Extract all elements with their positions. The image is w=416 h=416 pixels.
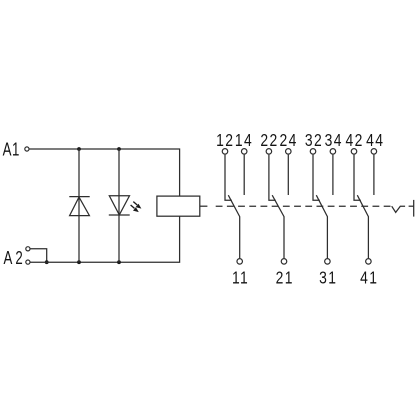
label 32 — [305, 131, 323, 150]
svg-text:32: 32 — [305, 131, 323, 150]
svg-text:41: 41 — [360, 269, 378, 288]
diode V1 suppression — [69, 197, 89, 216]
terminal 31 — [325, 259, 331, 265]
contact 1 NC wire 12 — [225, 155, 232, 201]
contact 3 NO wire 34 — [332, 155, 334, 195]
label 41 — [360, 269, 378, 288]
svg-text:24: 24 — [279, 131, 297, 150]
svg-text:14: 14 — [235, 131, 253, 150]
relay coil K1 — [157, 196, 200, 216]
svg-text:21: 21 — [276, 269, 294, 288]
wire LED branch — [118, 149, 120, 262]
svg-text:11: 11 — [232, 269, 249, 288]
svg-text:31: 31 — [319, 269, 337, 288]
terminal 32 — [310, 149, 316, 155]
contact 2 NC wire 22 — [269, 155, 276, 201]
LED light arrow 1 — [133, 202, 141, 209]
terminal 14 — [241, 149, 247, 155]
wire coil lead right — [200, 205, 208, 207]
terminal 41 — [366, 259, 372, 265]
contact 4 NO wire 44 — [373, 155, 375, 195]
wire bottom rail A2 to coil — [30, 216, 179, 262]
mechanical link dashed line — [216, 205, 391, 207]
label A2 — [4, 248, 26, 269]
terminal A1 — [25, 147, 29, 151]
terminal 11 — [237, 259, 243, 265]
terminal 12 — [222, 149, 228, 155]
label 14 — [235, 131, 253, 150]
LED light arrow 2 — [131, 205, 139, 212]
svg-text:A2: A2 — [4, 248, 26, 269]
terminal 22 — [266, 149, 272, 155]
node junction dot bottom LED — [117, 260, 121, 264]
label A1 — [3, 139, 20, 160]
wire A2 jumper — [30, 249, 46, 262]
label 44 — [366, 131, 384, 150]
mechanical link end tick — [409, 205, 414, 207]
svg-text:34: 34 — [325, 131, 343, 150]
contact 3 moving arm to 31 — [316, 195, 327, 258]
label 34 — [325, 131, 343, 150]
contact 4 moving arm to 41 — [357, 195, 368, 258]
terminal 21 — [281, 259, 287, 265]
contact 2 NO wire 24 — [287, 155, 289, 195]
contact 3 NC wire 32 — [313, 155, 320, 201]
wire diode branch — [78, 149, 80, 262]
terminal 34 — [330, 149, 336, 155]
node junction dot bottom diode — [77, 260, 81, 264]
label 11 — [232, 269, 249, 288]
contact 1 NO wire 14 — [243, 155, 245, 195]
node junction dot top diode — [77, 147, 81, 151]
terminal 44 — [371, 149, 377, 155]
terminal 24 — [286, 149, 292, 155]
terminal 42 — [351, 149, 357, 155]
svg-text:22: 22 — [260, 131, 278, 150]
label 31 — [319, 269, 337, 288]
label 22 — [260, 131, 278, 150]
label 42 — [345, 131, 363, 150]
svg-text:A1: A1 — [3, 139, 20, 160]
svg-text:42: 42 — [345, 131, 363, 150]
contact 1 moving arm to 11 — [228, 195, 239, 258]
label 12 — [216, 131, 234, 150]
node junction dot A2 jumper — [45, 260, 49, 264]
LED indicator — [109, 196, 130, 215]
node junction dot top LED — [117, 147, 121, 151]
contact 4 NC wire 42 — [354, 155, 361, 201]
label 24 — [279, 131, 297, 150]
terminal A2 upper — [26, 247, 30, 251]
label 21 — [276, 269, 294, 288]
wire top rail A1 to coil — [30, 149, 180, 196]
contact 2 moving arm to 21 — [272, 195, 284, 258]
svg-text:12: 12 — [216, 131, 234, 150]
terminal A2 lower — [26, 260, 30, 264]
mechanical link end bar — [413, 200, 415, 217]
mechanical link end v-notch — [392, 206, 405, 212]
svg-text:44: 44 — [366, 131, 384, 150]
